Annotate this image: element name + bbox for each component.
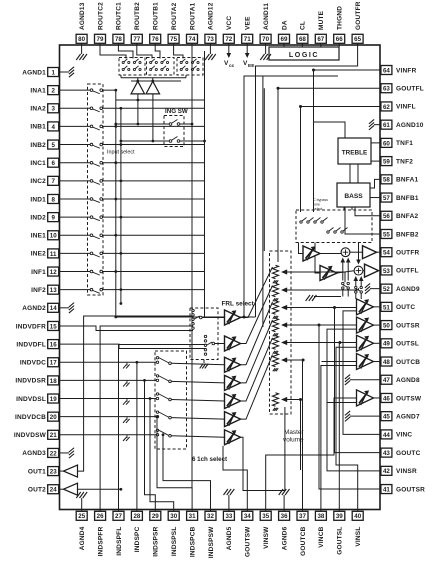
pin 21 INDVDSW: [14, 430, 60, 439]
wire FRL FL output: [241, 286, 273, 344]
svg-text:40: 40: [354, 513, 361, 520]
ground tone defeat: [306, 295, 341, 301]
pin 45 AGND7: [381, 412, 420, 421]
pin 16 INDVDFL: [16, 340, 59, 349]
svg-text:INDVDSW: INDVDSW: [14, 432, 47, 439]
svg-text:VINFR: VINFR: [396, 67, 417, 74]
pin 58 BNFA1: [381, 175, 419, 184]
svg-text:INB2: INB2: [30, 142, 46, 149]
pin 50 OUTSR: [381, 321, 420, 330]
svg-text:73: 73: [207, 36, 214, 43]
op-amp OUT48 gain: [357, 354, 374, 370]
wire pin 27 INDSPFL riser: [119, 345, 206, 510]
svg-text:ROUTA1: ROUTA1: [189, 2, 196, 30]
resistor master volume R7: [273, 393, 301, 411]
wire master row3 to OUTC amp: [335, 307, 357, 309]
op-amp 6.1ch gain ch1: [225, 357, 241, 372]
svg-text:2: 2: [51, 88, 55, 95]
switch input select row IN4: [60, 125, 205, 130]
switch 6.1ch select row 3: [156, 393, 224, 401]
svg-text:AGND4: AGND4: [79, 526, 86, 550]
wire pin 78 ROUTC1: [118, 45, 133, 59]
wire GOUTSL route pin 39: [338, 343, 340, 510]
pin 26 INDSPFR: [95, 510, 106, 557]
input select block: [88, 84, 104, 295]
logic block U-LOGIC: [269, 47, 339, 60]
pin 43 GOUTC: [381, 448, 421, 457]
svg-text:59: 59: [383, 159, 390, 166]
pin 3 INA2: [30, 104, 59, 113]
pin 18 INDVDSR: [15, 376, 59, 385]
op-amp 6.1ch gain ch4: [225, 412, 241, 427]
svg-text:71: 71: [244, 36, 251, 43]
pin 27 INDSPFL: [113, 510, 124, 556]
svg-text:ROUTC2: ROUTC2: [97, 2, 104, 30]
svg-text:11: 11: [50, 251, 57, 258]
wire master row6 to OUTCB amp: [322, 361, 357, 363]
pin 33 AGND5: [223, 510, 234, 551]
svg-text:62: 62: [383, 104, 390, 111]
svg-text:48: 48: [383, 359, 390, 366]
wire amp to pin 49: [374, 342, 382, 344]
wire BNFB1 pin 57: [370, 197, 381, 199]
resistor master volume R5: [273, 336, 340, 354]
svg-text:58: 58: [383, 177, 390, 184]
svg-text:24: 24: [50, 487, 57, 494]
svg-text:69: 69: [281, 36, 288, 43]
switch FRL select bank 2: [204, 335, 224, 355]
resistor master volume R3: [273, 301, 335, 319]
svg-text:20: 20: [50, 414, 57, 421]
REC select switch bank S1: [119, 58, 145, 76]
svg-text:18: 18: [50, 378, 57, 385]
wire GOUTSW route pin 34: [223, 446, 247, 510]
svg-text:AGND7: AGND7: [396, 413, 420, 420]
svg-text:INDVDFL: INDVDFL: [16, 341, 46, 348]
pin 61 AGND10: [381, 120, 424, 129]
wire pin 28 riser: [136, 361, 139, 510]
pin 51 OUTC: [381, 302, 415, 311]
junction: [299, 105, 302, 108]
ground at pin 36 AGND6: [279, 489, 290, 510]
pin 7 INC2: [30, 176, 59, 185]
svg-text:GOUTFL: GOUTFL: [396, 86, 424, 93]
pin 32 INDSPSW: [205, 510, 216, 559]
svg-text:1: 1: [51, 69, 55, 76]
svg-text:68: 68: [299, 36, 306, 43]
ground at pin 47 AGND8: [345, 375, 381, 385]
svg-text:INE2: INE2: [31, 251, 46, 258]
pin 12 INF1: [31, 267, 59, 276]
wire pin 20 row: [60, 416, 157, 418]
svg-text:INA2: INA2: [30, 106, 46, 113]
svg-text:28: 28: [133, 513, 140, 520]
pin 9 IND2: [30, 213, 59, 222]
svg-text:INE1: INE1: [31, 233, 46, 240]
resistor master volume R2: [273, 283, 359, 301]
wire amp to pin 50: [374, 324, 382, 326]
svg-text:37: 37: [299, 513, 306, 520]
svg-text:VINSW: VINSW: [263, 526, 270, 549]
svg-text:INDVDCB: INDVDCB: [15, 414, 46, 421]
svg-text:47: 47: [383, 377, 390, 384]
svg-text:61: 61: [383, 122, 390, 129]
wire VINFR route: [314, 70, 382, 212]
svg-text:60: 60: [383, 140, 390, 147]
wire pin 16 INDVDFL row: [60, 344, 206, 348]
bus wire vertical V2 (rec out 2): [120, 108, 123, 305]
wire GOUTSR route pin 41: [319, 325, 381, 489]
node summer FL: [354, 266, 363, 275]
svg-text:VEE: VEE: [245, 16, 252, 30]
svg-text:67: 67: [317, 36, 324, 43]
tap mark row pin 21: [126, 435, 128, 438]
svg-text:25: 25: [78, 513, 85, 520]
svg-text:INDSPSW: INDSPSW: [208, 526, 215, 558]
svg-text:14: 14: [50, 305, 57, 312]
op-amp tone gain FR: [303, 246, 320, 261]
svg-text:36: 36: [281, 513, 288, 520]
svg-text:AGND8: AGND8: [396, 377, 420, 384]
switch ING SW row 2: [120, 137, 206, 143]
pin 77 ROUTB2: [131, 2, 142, 45]
wire GOUTC route pin 43: [335, 308, 382, 453]
svg-text:INDVDFR: INDVDFR: [16, 323, 46, 330]
svg-text:MUTE: MUTE: [318, 10, 325, 30]
wire amp to pin 51: [374, 306, 382, 308]
svg-text:38: 38: [317, 513, 324, 520]
svg-text:VINFL: VINFL: [396, 104, 416, 111]
svg-text:56: 56: [383, 213, 390, 220]
pin 65 GOUTFR: [352, 1, 363, 45]
arrow into summer FL a: [355, 279, 357, 287]
arrow into summer FR a: [342, 261, 344, 281]
wire TNF1 pin 60: [371, 142, 381, 144]
switch tone defeat FL: [355, 286, 363, 299]
pin 74 ROUTA1: [187, 2, 198, 45]
wire A2 apex: [152, 78, 154, 83]
wire master row2 wiper: [358, 288, 360, 290]
switch input select row IN10: [60, 234, 205, 239]
wire master row4 to OUTSR amp: [319, 324, 357, 326]
wire FRL FR output: [241, 267, 273, 318]
svg-text:5: 5: [51, 142, 55, 149]
svg-text:AGND5: AGND5: [226, 526, 233, 550]
pin 57 BNFB1: [381, 193, 419, 202]
TREBLE block: [338, 138, 371, 164]
svg-text:66: 66: [336, 36, 343, 43]
svg-text:9: 9: [51, 215, 55, 222]
svg-text:4: 4: [51, 124, 55, 131]
wire pin 15 INDVDFR row: [60, 326, 194, 331]
svg-text:53: 53: [383, 268, 390, 275]
svg-text:54: 54: [383, 250, 390, 257]
wire tone feed 2: [315, 243, 320, 274]
pin 70 AGND11: [260, 3, 271, 45]
svg-text:select: select: [313, 207, 322, 211]
svg-text:50: 50: [383, 322, 390, 329]
switch input select row IN7: [60, 179, 205, 184]
svg-text:55: 55: [383, 231, 390, 238]
svg-text:GOUTSL: GOUTSL: [337, 527, 344, 555]
svg-text:32: 32: [207, 513, 214, 520]
ground at pin 33 AGND5: [224, 489, 235, 510]
switch input select row IN9: [60, 216, 205, 221]
wire 6.1ch ch2 to master volume: [241, 320, 273, 383]
svg-text:IND1: IND1: [30, 196, 46, 203]
wire return bus: [114, 316, 255, 319]
pin 15 INDVDFR: [16, 321, 60, 330]
pin 64 VINFR: [381, 66, 417, 75]
svg-text:42: 42: [383, 468, 390, 475]
wire pin 75 ROUTA2: [174, 45, 183, 59]
op-amp OUTFR buffer: [363, 246, 377, 259]
svg-text:13: 13: [50, 287, 57, 294]
wire GOUTFL route: [278, 88, 381, 262]
wire summer FR to amp: [350, 251, 363, 253]
pin 56 BNFA2: [381, 211, 419, 220]
switch input select row IN3: [60, 107, 205, 112]
resistor master volume R6: [273, 353, 304, 371]
op-amp 6.1ch gain ch2: [225, 375, 241, 390]
svg-text:7: 7: [51, 178, 55, 185]
svg-text:3: 3: [51, 106, 55, 113]
ING SW block box: [164, 116, 184, 147]
svg-text:26: 26: [97, 513, 104, 520]
svg-text:INDSPCB: INDSPCB: [189, 526, 196, 557]
arrow into summer FR b: [347, 261, 349, 281]
VEE supply arrow pin 71: [243, 45, 255, 69]
svg-text:GOUTCB: GOUTCB: [300, 526, 307, 555]
svg-text:ROUTC1: ROUTC1: [116, 2, 123, 30]
wire bass to tone select b: [351, 207, 353, 210]
svg-text:74: 74: [189, 36, 196, 43]
wire pin 66 THGND to logic: [338, 45, 340, 47]
wire VINSR route pin 42: [327, 329, 381, 471]
wire treble-bass link 2: [357, 164, 359, 183]
svg-text:INC1: INC1: [30, 160, 46, 167]
pin 68 CL: [297, 21, 308, 45]
pin 28 INDSPC: [131, 510, 142, 553]
svg-text:INDSPFR: INDSPFR: [97, 526, 104, 556]
pin 8 IND1: [30, 194, 59, 203]
node summer FR: [341, 248, 350, 257]
svg-text:BNFA2: BNFA2: [396, 213, 418, 220]
wire tone defeat to summer FL: [358, 243, 360, 262]
svg-text:AGND1: AGND1: [22, 69, 46, 76]
junction logic bus: [243, 316, 246, 319]
svg-text:OUTFL: OUTFL: [396, 268, 419, 275]
wire VINSW route pin 35: [266, 398, 357, 510]
svg-text:INA1: INA1: [30, 87, 46, 94]
pin 2 INA1: [30, 86, 59, 95]
pin 71 VEE: [242, 16, 253, 45]
svg-text:BNFB1: BNFB1: [396, 195, 419, 202]
pin 46 OUTSW: [381, 393, 422, 402]
svg-text:51: 51: [383, 304, 390, 311]
pin 13 INF2: [31, 285, 59, 294]
svg-text:49: 49: [383, 341, 390, 348]
svg-text:TNF2: TNF2: [396, 158, 413, 165]
wire mesh aux v: [263, 88, 265, 251]
wire pin 18 row: [60, 379, 157, 381]
ground at pin 52 AGND9: [365, 283, 381, 293]
pin 31 INDSPCB: [187, 510, 198, 558]
svg-text:AGND11: AGND11: [263, 3, 270, 30]
wire VINC route pin 44: [343, 311, 381, 435]
wire bass to tone select a: [343, 207, 345, 210]
svg-text:OUTCB: OUTCB: [396, 359, 420, 366]
bus wire rec apex: [131, 80, 181, 83]
wire tone FR to summer: [320, 253, 341, 255]
wire tone FL to summer: [337, 271, 354, 273]
svg-text:EE: EE: [248, 63, 255, 69]
bus wire vertical V4: [204, 51, 206, 317]
REC select switch bank S2: [147, 58, 175, 76]
pin 42 VINSR: [381, 466, 417, 475]
svg-text:10: 10: [50, 233, 57, 240]
svg-text:29: 29: [152, 513, 159, 520]
svg-text:39: 39: [336, 513, 343, 520]
svg-text:INDSPSL: INDSPSL: [171, 527, 178, 557]
ground FRL select: [200, 360, 209, 369]
switch 6.1ch select row 1: [156, 357, 224, 365]
svg-text:79: 79: [97, 36, 104, 43]
svg-text:ROUTA2: ROUTA2: [171, 2, 178, 30]
op-amp 6.1ch gain ch3: [225, 394, 241, 409]
svg-text:80: 80: [78, 36, 85, 43]
wire VINCB route pin 38: [321, 366, 357, 510]
wire amp to pin 46: [374, 397, 382, 399]
wire pin 30 riser: [149, 397, 174, 509]
pin 79 ROUTC2: [95, 2, 106, 45]
wire VINFL route: [301, 106, 382, 212]
svg-text:AGND6: AGND6: [281, 526, 288, 550]
svg-text:16: 16: [50, 342, 57, 349]
svg-text:70: 70: [262, 36, 269, 43]
master volume block box: [270, 251, 292, 414]
ground at pin 61 AGND10: [369, 119, 381, 129]
svg-text:63: 63: [383, 86, 390, 93]
svg-text:INB1: INB1: [30, 124, 46, 131]
pin 23 OUT1: [28, 467, 60, 476]
svg-text:DA: DA: [281, 20, 288, 30]
svg-text:GOUTFR: GOUTFR: [355, 1, 362, 30]
tap mark row pin 18: [126, 380, 128, 383]
wire treble top feed: [314, 122, 346, 138]
resistor master volume R1: [273, 265, 346, 283]
switch tone select contacts: [300, 218, 348, 234]
junction: [312, 69, 315, 72]
svg-text:46: 46: [383, 395, 390, 402]
wire pin 29 riser: [143, 379, 155, 510]
pin 22 AGND3: [22, 448, 59, 457]
svg-text:45: 45: [383, 414, 390, 421]
svg-text:INDVDC: INDVDC: [20, 360, 46, 367]
wire pin 17 row: [60, 361, 157, 363]
svg-text:65: 65: [354, 36, 361, 43]
switch input select row IN2: [60, 89, 205, 100]
wire A1 apex: [137, 78, 139, 83]
wire pin 19 row: [60, 398, 157, 400]
wire A2 input column: [152, 94, 154, 141]
pin 5 INB2: [30, 140, 59, 149]
resistor master volume R4: [273, 318, 320, 336]
svg-text:64: 64: [383, 67, 390, 74]
svg-text:OUTC: OUTC: [396, 304, 415, 311]
svg-text:52: 52: [383, 286, 390, 293]
REC select switch bank S3: [177, 58, 203, 76]
svg-text:CL: CL: [300, 21, 307, 30]
svg-text:33: 33: [225, 513, 232, 520]
op-amp OUT2 buffer: [64, 483, 78, 495]
svg-text:AGND13: AGND13: [79, 2, 86, 30]
pin 25 AGND4: [76, 510, 87, 551]
switch input select row IN8: [60, 198, 205, 203]
switch input select row IN12: [60, 270, 205, 275]
pin 55 BNFB2: [381, 229, 419, 238]
ground at pin 70 AGND11: [260, 45, 271, 60]
pin 37 GOUTCB: [297, 510, 308, 556]
wire logic bus 2: [262, 76, 264, 327]
wire pin 68 CL to logic: [301, 45, 303, 47]
svg-text:OUTFR: OUTFR: [396, 250, 419, 257]
svg-text:78: 78: [115, 36, 122, 43]
switch FRL select bank 1: [192, 309, 225, 329]
ground at pin 80 AGND13: [76, 45, 87, 60]
pin 20 INDVDCB: [15, 412, 60, 421]
svg-text:GOUTSR: GOUTSR: [396, 486, 425, 493]
svg-text:C bypass: C bypass: [313, 198, 328, 202]
wire BNFB2 pin 55: [345, 207, 381, 234]
pin 36 AGND6: [279, 510, 290, 551]
svg-text:ING SW: ING SW: [165, 108, 188, 115]
svg-text:BNFA1: BNFA1: [396, 177, 418, 184]
wire master row7 drop: [300, 400, 302, 471]
svg-text:8: 8: [51, 196, 55, 203]
svg-text:GOUTC: GOUTC: [396, 450, 421, 457]
pin 59 TNF2: [381, 157, 413, 166]
wire 6.1ch ch1 to master volume: [241, 302, 273, 365]
svg-text:AGND9: AGND9: [396, 286, 420, 293]
pin 4 INB1: [30, 122, 59, 131]
pin 29 INDSPSR: [150, 510, 161, 557]
svg-text:BASS: BASS: [344, 193, 363, 200]
pin 53 OUTFL: [381, 266, 419, 275]
wire OUT2 input: [78, 488, 123, 491]
pin 35 VINSW: [260, 510, 271, 549]
wire BNFA2 pin 56: [355, 207, 381, 216]
pin 48 OUTCB: [381, 357, 420, 366]
switch input select row IN6: [60, 161, 205, 166]
wire GOUTCB route pin 37: [302, 360, 304, 510]
pin 17 INDVDC: [20, 358, 60, 367]
svg-text:27: 27: [115, 513, 122, 520]
pin 6 INC1: [30, 158, 59, 167]
pin 39 GOUTSL: [334, 510, 345, 555]
wire pin 23 OUT1: [60, 470, 64, 472]
op-amp FRL gain FR: [225, 310, 241, 325]
svg-text:19: 19: [50, 396, 57, 403]
svg-text:GOUTSW: GOUTSW: [245, 526, 252, 557]
svg-text:INDVDSR: INDVDSR: [15, 378, 46, 385]
svg-text:17: 17: [50, 360, 57, 367]
switch ING SW row 1: [114, 120, 193, 126]
svg-text:30: 30: [170, 513, 177, 520]
svg-text:31: 31: [189, 513, 196, 520]
wire A1 input column: [137, 94, 140, 124]
svg-text:57: 57: [383, 195, 390, 202]
